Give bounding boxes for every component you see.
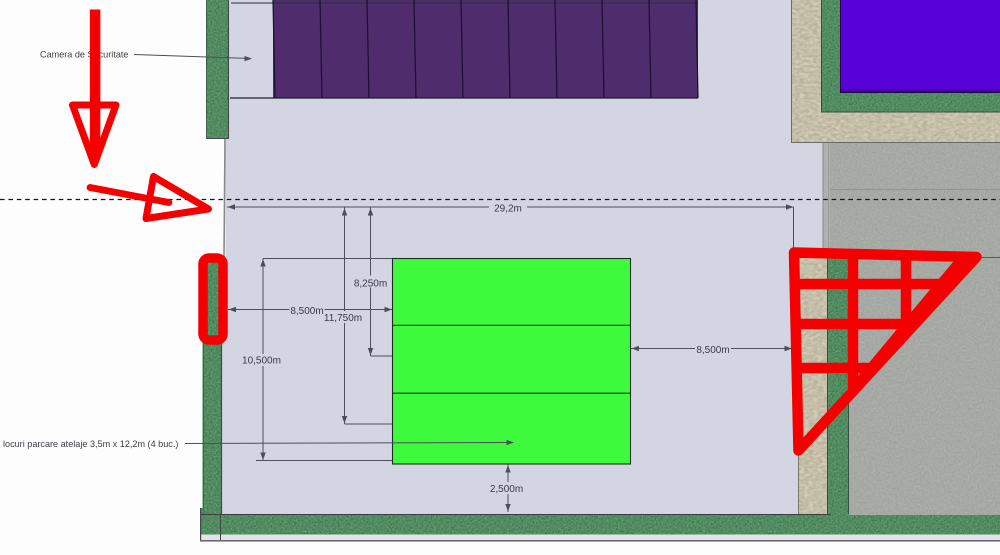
dashed reference line [0,199,1000,201]
svg-text:8,250m: 8,250m [354,279,387,290]
bottom boundary wall (green strip) [200,508,1000,541]
main paved yard (lavender) [222,0,832,515]
svg-text:Camera de Securitate: Camera de Securitate [40,50,128,60]
pool terrace tan path (top right) [791,0,1000,143]
svg-text:2,500m: 2,500m [490,484,523,495]
green hedge strip (right, lower) [827,250,849,515]
dimension 8,500m (right) [631,343,792,357]
dimension 8,500m (left) [228,304,392,318]
left boundary wall: top green section [206,0,229,139]
svg-text:locuri parcare atelaje 3,5m x: locuri parcare atelaje 3,5m x 12,2m (4 b… [3,439,178,449]
red marker: down arrow [73,10,117,165]
svg-text:29,2m: 29,2m [494,204,522,215]
right boundary wall lines (upper) [823,143,829,250]
leader: Camera de Securitate [40,50,252,62]
leader: locuri parcare atelaje [3,439,514,449]
svg-text:10,500m: 10,500m [242,356,281,367]
svg-text:8,500m: 8,500m [696,345,729,356]
dimension 10,500m [241,259,392,461]
svg-text:8,500m: 8,500m [290,306,323,317]
dimension 2,500m [487,465,527,513]
left boundary wall: lower green section [203,256,222,515]
dimension 29,2m [227,201,794,249]
red marker: right arrow [90,177,209,219]
green hall rectangle [393,259,631,465]
left wall thin edge (gap section) [224,139,225,257]
gray gravel area (right) [830,143,1000,515]
pool (violet) [840,0,1000,93]
red marker: gridded triangle (right) [794,253,977,451]
svg-text:11,750m: 11,750m [324,313,362,324]
left wall pillar under red marker [205,256,222,342]
red marker: rectangle on left wall [203,258,223,340]
tan walkway strip (right, lower) [798,250,827,515]
pool surround green strip [821,0,1000,113]
dimension 11,750m [324,208,392,425]
dimension 8,250m [354,208,393,357]
top purple parking row [230,0,698,98]
